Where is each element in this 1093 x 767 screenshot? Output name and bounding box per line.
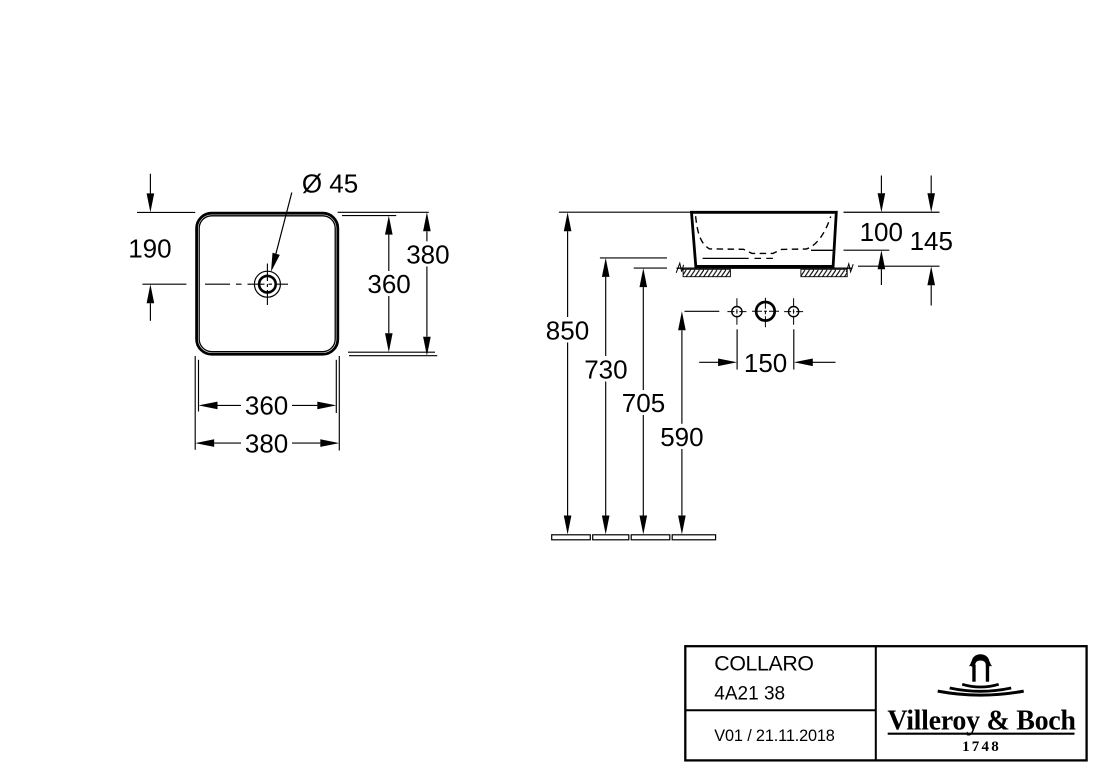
svg-text:360: 360 <box>245 391 288 421</box>
svg-text:850: 850 <box>546 315 589 345</box>
svg-text:145: 145 <box>910 226 953 256</box>
leader line for tap hole label <box>274 193 292 264</box>
basin hidden rim line right <box>811 249 833 251</box>
logo arch <box>971 654 990 666</box>
svg-text:380: 380 <box>245 429 288 459</box>
tap hole inner circle <box>259 276 276 293</box>
basin bottom recess line <box>703 257 749 259</box>
basin outline (side view) <box>692 212 837 266</box>
countertop hatched strip left <box>683 269 730 276</box>
svg-text:360: 360 <box>367 269 410 299</box>
countertop break mark right <box>846 264 853 272</box>
tap hole horizontal centerline <box>205 283 288 285</box>
countertop break mark left <box>676 263 683 273</box>
basin bottom recess hidden dashes <box>755 257 773 259</box>
svg-text:Villeroy & Boch: Villeroy & Boch <box>887 706 1076 737</box>
floor tile 4 <box>672 535 715 540</box>
svg-text:190: 190 <box>128 234 171 264</box>
right dims: bottom extension lines <box>348 351 435 353</box>
svg-text:4A21 38: 4A21 38 <box>714 683 785 704</box>
logo ripple arc 3 <box>938 691 1024 695</box>
left dims extension lines <box>559 211 692 213</box>
logo ripple arc 2 <box>950 688 1012 691</box>
tap hole circle (side view) <box>756 302 775 321</box>
right dims extension lines <box>844 211 940 213</box>
dim 380 (right vertical) <box>423 212 431 231</box>
floor tile 2 <box>593 535 629 540</box>
svg-text:Ø 45: Ø 45 <box>302 168 358 198</box>
fixing hole left circle <box>732 307 742 317</box>
title block outer border <box>685 646 1086 760</box>
floor tile 1 <box>552 535 591 540</box>
svg-text:150: 150 <box>744 348 787 378</box>
countertop hatched strip right <box>801 269 847 276</box>
basin inner rim line (top view) <box>199 216 335 352</box>
tap hole outer circle <box>254 271 280 297</box>
dim 190 top arrow <box>149 174 151 194</box>
svg-text:100: 100 <box>860 217 903 247</box>
dim 190 extension line top <box>137 211 195 213</box>
fixing hole right circle <box>789 307 799 317</box>
floor tile 3 <box>631 535 670 540</box>
title block vertical divider <box>875 646 877 761</box>
dim 100 <box>880 176 882 194</box>
basin outer outline (top view) <box>197 213 338 354</box>
title block horizontal divider <box>685 709 876 711</box>
svg-text:590: 590 <box>660 422 703 452</box>
dim 150 <box>699 361 719 363</box>
svg-text:1748: 1748 <box>962 739 1001 755</box>
dim 730 <box>602 258 610 277</box>
dim 705 <box>640 268 648 287</box>
dim 360 (right vertical) <box>385 216 393 235</box>
dim 145 <box>930 176 932 194</box>
logo ripple arc 1 <box>962 684 999 687</box>
svg-text:COLLARO: COLLARO <box>714 652 813 676</box>
svg-text:705: 705 <box>622 388 665 418</box>
svg-text:V01 / 21.11.2018: V01 / 21.11.2018 <box>714 727 835 745</box>
logo underline <box>888 733 1075 735</box>
svg-text:380: 380 <box>406 239 449 269</box>
countertop line <box>677 267 853 269</box>
leader arrowhead <box>271 253 280 272</box>
right dims: top extension lines <box>338 211 429 213</box>
dim 190 extension line bottom <box>142 283 186 285</box>
tap hole vertical centerline <box>266 264 268 306</box>
dim 190 bottom arrow <box>149 303 151 321</box>
dim 360 (bottom horizontal) <box>199 402 218 410</box>
dim 850 <box>564 212 572 231</box>
basin inner bowl hidden line <box>696 216 831 253</box>
dim 590 <box>678 311 686 330</box>
dim 380 (bottom horizontal) <box>195 439 214 447</box>
dim 150 extension lines <box>736 329 738 369</box>
svg-text:730: 730 <box>584 354 627 384</box>
bottom dims: extension lines <box>198 360 200 412</box>
